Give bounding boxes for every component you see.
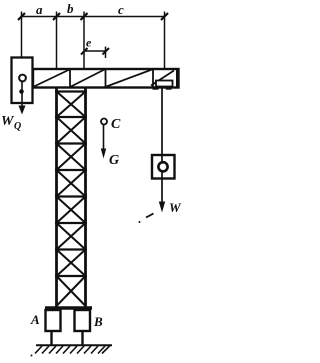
svg-text:B: B (93, 314, 103, 329)
svg-text:G: G (109, 153, 119, 168)
svg-text:C: C (111, 117, 121, 132)
svg-text:A: A (30, 312, 40, 327)
svg-text:e: e (86, 36, 92, 50)
svg-text:a: a (36, 2, 43, 17)
svg-text:b: b (67, 1, 74, 16)
svg-text:c: c (118, 2, 124, 17)
svg-text:W: W (169, 200, 182, 215)
svg-text:W: W (1, 114, 15, 129)
svg-text:Q: Q (14, 121, 21, 132)
